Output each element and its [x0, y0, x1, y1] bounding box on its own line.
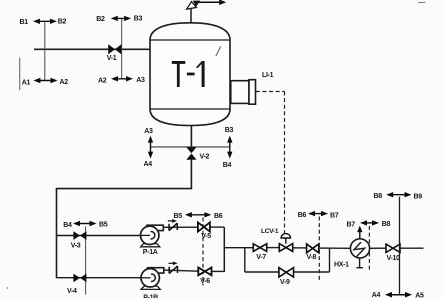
svg-text:V-6: V-6	[200, 278, 210, 285]
wire HX-1 to V-10	[370, 247, 386, 249]
svg-text:A3: A3	[144, 128, 153, 135]
svg-text:B9: B9	[414, 193, 423, 200]
wire tank bottom stub	[190, 125, 192, 147]
svg-text:A1: A1	[22, 79, 31, 86]
svg-text:LCV-1: LCV-1	[261, 228, 279, 235]
actuator dome LCV-1	[281, 234, 290, 238]
svg-text:P-1A: P-1A	[143, 249, 158, 256]
valve V-6	[198, 268, 211, 276]
svg-text:V-7: V-7	[256, 254, 266, 261]
wire horizontal run to left	[56, 188, 193, 190]
svg-text:B8: B8	[382, 221, 391, 228]
wire bypass drop	[244, 248, 246, 272]
valve V-1	[108, 44, 121, 54]
arrow B7-B8	[360, 220, 379, 225]
arrow flow direction 2	[169, 262, 178, 266]
node marker line 1	[44, 21, 46, 80]
speck bottom left	[7, 287, 9, 289]
valve V-10	[386, 244, 400, 252]
wire V-8 to HX-1	[319, 247, 351, 249]
arrow A4-A5	[385, 292, 412, 298]
node marker line V-2	[151, 146, 230, 148]
svg-text:B2: B2	[96, 16, 105, 23]
arrow B3 up / B4 down	[227, 136, 232, 159]
wire V-6 to header	[212, 270, 225, 272]
node marker dashed through V-5 V-6	[202, 218, 204, 286]
valve V-9	[279, 268, 294, 277]
node marker line 2	[121, 18, 123, 78]
wire bypass rise	[329, 248, 331, 272]
valve V-7	[253, 244, 266, 252]
svg-text:A3: A3	[136, 77, 145, 84]
wire drop from V-2	[190, 160, 192, 189]
wire left header down	[56, 189, 58, 279]
valve V-3	[73, 231, 86, 240]
svg-text:V-4: V-4	[67, 288, 77, 295]
svg-text:B3: B3	[225, 127, 234, 134]
svg-text:B5: B5	[174, 213, 183, 220]
svg-text:P-1B: P-1B	[143, 294, 158, 298]
pump P-1B	[141, 268, 164, 290]
wire outlet	[400, 247, 424, 249]
svg-text:A4: A4	[144, 161, 153, 168]
valve LCV-1	[279, 244, 292, 252]
wire instrument dashed horizontal	[256, 91, 285, 93]
svg-text:B4: B4	[63, 222, 72, 229]
stem LCV-1	[285, 238, 287, 244]
svg-text:A4: A4	[372, 292, 381, 298]
nozzle LI-1	[231, 80, 256, 105]
arrow B1-B2	[33, 19, 57, 24]
stray scan line	[19, 58, 21, 91]
wire V-5 to header	[210, 226, 224, 228]
svg-text:B5: B5	[99, 222, 108, 229]
svg-text:B6: B6	[214, 213, 223, 220]
wire instrument dashed vertical to LCV-1	[284, 92, 286, 234]
svg-text:B4: B4	[223, 162, 232, 169]
node marker line right	[399, 197, 401, 295]
wire suction branch A (top)	[57, 235, 150, 237]
svg-text:A2: A2	[98, 78, 107, 85]
tank T-1 vessel	[150, 23, 230, 126]
svg-text:B3: B3	[134, 15, 143, 22]
wire main feed pipe	[34, 48, 150, 50]
scratch mark on tank	[216, 46, 221, 56]
svg-text:B8: B8	[374, 193, 383, 200]
valve V-4	[73, 274, 86, 283]
arrow B5-B6	[185, 212, 212, 217]
node marker dashed through V-8	[318, 217, 320, 281]
wire tank top stub	[190, 7, 192, 23]
wire LCV-1 to V-8	[293, 247, 307, 249]
arrow vent outlet	[197, 0, 227, 5]
svg-text:LI-1: LI-1	[262, 72, 274, 79]
node marker line through V-3 V-4	[85, 226, 87, 294]
svg-text:A5: A5	[415, 292, 424, 298]
svg-text:V-10: V-10	[387, 255, 401, 262]
arrow A2-A3	[111, 76, 133, 81]
svg-text:B2: B2	[58, 19, 67, 26]
svg-text:B6: B6	[298, 212, 307, 219]
arrow B6-B7	[308, 211, 328, 216]
wire discharge A	[163, 226, 198, 228]
svg-text:V-8: V-8	[307, 254, 317, 261]
node marker dashed right of HX-1	[368, 226, 370, 271]
arrow flow direction 1	[168, 219, 177, 223]
arrow HX-1 vent up	[357, 226, 362, 239]
wire header vertical	[223, 227, 225, 272]
heat exchanger HX-1	[350, 239, 369, 258]
svg-text:V-2: V-2	[200, 154, 210, 161]
valve V-2	[186, 147, 196, 160]
svg-text:A2: A2	[60, 79, 69, 86]
label T-1	[172, 61, 205, 87]
check valve 1	[169, 223, 177, 230]
wire suction branch B (bottom)	[57, 277, 151, 279]
arrow B4-B5	[73, 221, 97, 226]
relief valve on tank top	[187, 1, 201, 10]
arrow A1-A2	[33, 78, 57, 83]
svg-text:V-9: V-9	[280, 279, 290, 286]
svg-text:B1: B1	[20, 19, 29, 26]
arrow A3 up / A4 down	[148, 136, 153, 159]
svg-text:V-3: V-3	[71, 242, 81, 249]
speck top right	[418, 1, 426, 3]
pump P-1A	[141, 225, 164, 247]
valve V-5	[198, 222, 210, 231]
wire HX-1 drain	[356, 258, 363, 268]
check valve 2	[169, 266, 177, 273]
svg-text:V-1: V-1	[107, 55, 117, 62]
wire discharge B	[164, 270, 199, 271]
svg-text:B7: B7	[347, 222, 356, 229]
wire bypass bottom run	[245, 271, 330, 273]
valve V-8	[307, 244, 319, 253]
svg-text:B7: B7	[330, 212, 339, 219]
svg-text:V-5: V-5	[201, 233, 211, 240]
wire main line to V-7	[224, 247, 253, 249]
arrow B2-B3	[111, 16, 131, 21]
svg-text:HX-1: HX-1	[334, 261, 349, 268]
wire V-7 to LCV-1	[267, 247, 280, 249]
arrow B8-B9	[386, 192, 411, 197]
